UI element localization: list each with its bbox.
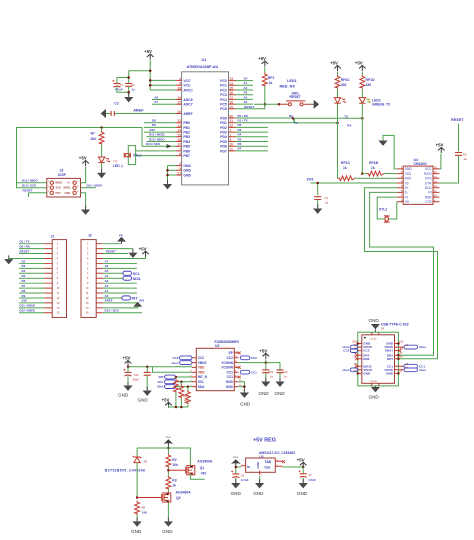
svg-text:XO: XO bbox=[405, 200, 410, 204]
wire Out to +5V bbox=[282, 466, 303, 468]
node A0..A5 labels bbox=[244, 77, 248, 105]
wire RX line (PD0) bbox=[236, 118, 338, 123]
wire reset line bbox=[254, 103, 279, 105]
svg-text:BZT52B5V6_C045346: BZT52B5V6_C045346 bbox=[105, 468, 145, 472]
shield pins top bbox=[372, 332, 379, 335]
svg-text:14: 14 bbox=[177, 129, 181, 133]
U1 right pin names bbox=[220, 79, 227, 153]
U3 pin numbers bbox=[190, 356, 192, 387]
wire TX line (PD1) bbox=[236, 118, 363, 122]
ground reg bbox=[255, 479, 264, 488]
power +5V top bbox=[144, 49, 154, 60]
svg-text:PD7: PD7 bbox=[220, 149, 227, 153]
svg-text:R4: R4 bbox=[142, 506, 146, 510]
svg-text:DSR: DSR bbox=[425, 195, 432, 199]
svg-text:+5V: +5V bbox=[259, 348, 267, 353]
wire vbus to Q1 drain bbox=[168, 448, 190, 466]
resistor R2 10k bbox=[166, 454, 171, 468]
svg-text:vbus: vbus bbox=[233, 456, 239, 459]
wire ICSP +V to +5V bbox=[81, 167, 86, 183]
svg-text:D13 / SCK: D13 / SCK bbox=[22, 184, 37, 188]
svg-text:C13: C13 bbox=[283, 370, 288, 374]
svg-text:PB6: PB6 bbox=[183, 149, 190, 153]
no-connect EP VCONN bbox=[238, 352, 241, 355]
svg-text:17: 17 bbox=[177, 143, 181, 147]
wire XI XO crystal loop bbox=[377, 197, 397, 219]
svg-text:+5V: +5V bbox=[297, 458, 305, 463]
resistor RP2C 330 bbox=[337, 72, 339, 75]
svg-text:R3: R3 bbox=[172, 478, 176, 482]
wire LED1 col to RP1C bbox=[337, 123, 339, 178]
wire D+ route bbox=[365, 188, 438, 359]
capacitor C3 series bbox=[111, 111, 114, 116]
svg-text:+5V: +5V bbox=[162, 397, 170, 402]
svg-text:DCD: DCD bbox=[425, 186, 433, 190]
svg-text:ADC7: ADC7 bbox=[183, 103, 192, 107]
svg-text:RESET: RESET bbox=[244, 105, 254, 109]
svg-text:AVCC: AVCC bbox=[183, 88, 193, 92]
svg-text:D2: D2 bbox=[22, 259, 26, 263]
svg-text:C2: C2 bbox=[131, 83, 135, 87]
svg-text:AMS1117-5.0_C165483: AMS1117-5.0_C165483 bbox=[259, 451, 295, 455]
svg-text:V3: V3 bbox=[405, 181, 409, 185]
svg-text:RX: RX bbox=[347, 124, 351, 128]
svg-text:PC3: PC3 bbox=[220, 93, 227, 97]
svg-text:GND: GND bbox=[138, 397, 149, 402]
wire ICSP GND bbox=[81, 193, 86, 209]
svg-text:TX: TX bbox=[294, 121, 298, 125]
svg-text:.1u: .1u bbox=[269, 374, 273, 378]
svg-text:GND: GND bbox=[183, 169, 191, 173]
LED2 symbol bbox=[359, 98, 365, 104]
svg-text:32: 32 bbox=[230, 124, 234, 128]
svg-text:GND: GND bbox=[226, 380, 234, 384]
ground C12 bbox=[261, 378, 270, 387]
wire VCC branches to U1 bbox=[150, 80, 176, 90]
U4 pin names bbox=[405, 167, 413, 204]
svg-text:VDD: VDD bbox=[198, 366, 205, 370]
wire J2 pin14 3V3 bbox=[103, 307, 138, 308]
svg-text:D11 / MOSI: D11 / MOSI bbox=[149, 133, 165, 137]
svg-text:4.7uF: 4.7uF bbox=[115, 87, 123, 91]
capacitor C13 1u bbox=[279, 363, 281, 370]
wire C6 to DTR bbox=[439, 155, 458, 183]
svg-text:4k7: 4k7 bbox=[184, 399, 189, 403]
resistor R7 1k0 bbox=[101, 128, 103, 131]
wire J1 gnd pin4 bbox=[9, 257, 45, 259]
svg-text:10: 10 bbox=[230, 143, 234, 147]
svg-text:PC5: PC5 bbox=[220, 103, 227, 107]
U1 right pin stubs bbox=[229, 81, 236, 151]
svg-text:RESET: RESET bbox=[20, 249, 30, 253]
wire cap bottom bus bbox=[117, 86, 129, 96]
svg-text:+5V: +5V bbox=[144, 49, 152, 54]
svg-text:CC2: CC2 bbox=[343, 349, 349, 353]
svg-text:U3: U3 bbox=[215, 344, 219, 348]
net flag vbus left1 bbox=[350, 345, 357, 349]
resistor RP1B 1k bbox=[362, 173, 366, 175]
svg-text:D1 / TX: D1 / TX bbox=[238, 119, 248, 123]
svg-text:DTR: DTR bbox=[425, 181, 432, 185]
ICSP pin names bbox=[56, 181, 71, 195]
svg-text:vbus: vbus bbox=[419, 345, 426, 349]
svg-text:GND: GND bbox=[405, 167, 413, 171]
svg-text:INT_N: INT_N bbox=[198, 375, 208, 379]
wire AREF bbox=[106, 113, 176, 115]
svg-text:C6: C6 bbox=[463, 153, 467, 157]
svg-text:A1: A1 bbox=[244, 81, 248, 85]
J1 pin stubs bbox=[44, 244, 52, 313]
svg-text:4.7uF: 4.7uF bbox=[241, 478, 249, 482]
svg-text:26: 26 bbox=[230, 91, 234, 95]
svg-text:A7: A7 bbox=[104, 259, 108, 263]
net flag CC2 left bbox=[350, 349, 357, 353]
svg-text:VBUS: VBUS bbox=[198, 361, 207, 365]
svg-text:TXD: TXD bbox=[405, 172, 412, 176]
svg-text:CTS: CTS bbox=[425, 200, 431, 204]
svg-text:1k: 1k bbox=[343, 166, 347, 170]
wire VCONN to caps bbox=[238, 362, 280, 364]
U4 left stubs bbox=[397, 169, 403, 202]
J1 pin numbers bbox=[57, 243, 60, 315]
svg-text:+5V REG: +5V REG bbox=[253, 438, 276, 444]
net flag CC2 right bbox=[240, 356, 250, 360]
svg-text:PC1: PC1 bbox=[220, 84, 227, 88]
svg-text:C3: C3 bbox=[114, 102, 118, 106]
svg-text:RP1C: RP1C bbox=[341, 161, 351, 165]
U4 right stubs bbox=[433, 169, 439, 202]
svg-text:D10: D10 bbox=[22, 299, 28, 303]
wire J2 pin2 gnd bbox=[103, 248, 133, 250]
svg-text:DN2: DN2 bbox=[363, 357, 369, 361]
pin names inside right bbox=[384, 342, 393, 376]
svg-text:A6: A6 bbox=[104, 264, 108, 268]
svg-text:GND: GND bbox=[118, 392, 129, 397]
svg-text:C7: C7 bbox=[308, 473, 312, 477]
svg-text:Q2: Q2 bbox=[176, 496, 181, 500]
no-connect mark right SBU1 bbox=[398, 349, 401, 352]
svg-text:J2: J2 bbox=[88, 234, 92, 238]
svg-text:21: 21 bbox=[177, 172, 181, 176]
svg-text:D0 / RX: D0 / RX bbox=[238, 114, 249, 118]
svg-text:PC4: PC4 bbox=[220, 98, 227, 102]
svg-text:GND: GND bbox=[363, 372, 371, 376]
svg-text:+5V: +5V bbox=[436, 142, 444, 147]
wire cap top bus bbox=[117, 78, 129, 84]
svg-text:AO3400A: AO3400A bbox=[176, 490, 192, 494]
capacitor C2 .1u bbox=[125, 84, 132, 87]
svg-text:A4: A4 bbox=[104, 274, 108, 278]
net flag CC1 right bbox=[404, 364, 418, 368]
svg-text:RTS: RTS bbox=[425, 177, 431, 181]
power +5V pullups bbox=[162, 397, 172, 408]
ground left-pointing at AREF bbox=[101, 109, 106, 118]
svg-text:R7: R7 bbox=[91, 132, 95, 136]
ground C4 bbox=[313, 205, 322, 214]
svg-text:1k: 1k bbox=[172, 483, 176, 487]
svg-text:.1u: .1u bbox=[325, 200, 329, 204]
svg-text:22uF: 22uF bbox=[133, 377, 139, 381]
resistor RP1 1k bbox=[264, 67, 266, 73]
ground U4 bbox=[378, 141, 387, 146]
svg-text:D13 / SCK: D13 / SCK bbox=[146, 142, 161, 146]
svg-text:18: 18 bbox=[177, 87, 181, 91]
svg-text:2: 2 bbox=[230, 133, 232, 137]
svg-text:GND: GND bbox=[226, 385, 234, 389]
U1 left pin names bbox=[183, 79, 193, 178]
transistor Q1 AO3400A bbox=[168, 469, 185, 471]
svg-text:In: In bbox=[247, 465, 250, 469]
svg-text:SCL: SCL bbox=[158, 380, 164, 384]
svg-text:LED1: LED1 bbox=[287, 79, 297, 83]
ground top arrow bbox=[371, 324, 380, 329]
ground LED_L bbox=[97, 169, 106, 178]
svg-text:9: 9 bbox=[230, 138, 232, 142]
svg-text:10k: 10k bbox=[172, 463, 178, 467]
wire U4 GND hook bbox=[383, 135, 397, 169]
svg-text:vbus: vbus bbox=[166, 436, 172, 439]
svg-text:+V: +V bbox=[67, 181, 71, 185]
ground Q2 bbox=[164, 517, 173, 526]
shield pins bottom bbox=[372, 383, 379, 386]
capacitor C4 1u bbox=[314, 197, 321, 200]
ground J1 bbox=[4, 255, 13, 264]
svg-text:D2: D2 bbox=[238, 123, 242, 127]
wire ICSP RESET bbox=[29, 193, 47, 197]
power +5V output bbox=[297, 458, 307, 468]
svg-text:PB7: PB7 bbox=[183, 154, 190, 158]
svg-text:6: 6 bbox=[179, 82, 181, 86]
svg-text:RED_RX: RED_RX bbox=[280, 85, 296, 89]
svg-text:16: 16 bbox=[177, 138, 181, 142]
svg-text:PD5: PD5 bbox=[220, 140, 227, 144]
svg-text:LED_L: LED_L bbox=[113, 164, 124, 168]
svg-text:VCC: VCC bbox=[183, 84, 191, 88]
node ring junctions bbox=[357, 342, 360, 345]
svg-text:MOSI: MOSI bbox=[64, 186, 71, 190]
U3 right stubs bbox=[234, 353, 238, 387]
svg-text:VCONN: VCONN bbox=[221, 361, 233, 365]
wire ADC7 A7 bbox=[152, 103, 176, 105]
svg-text:Out: Out bbox=[264, 465, 271, 469]
svg-text:C12: C12 bbox=[268, 370, 273, 374]
pin ids left bbox=[353, 340, 358, 373]
ground R4 bbox=[133, 517, 142, 526]
svg-text:RP2: RP2 bbox=[183, 394, 189, 398]
wire RP1 to reset line bbox=[264, 87, 266, 105]
ICSP pin numbers bbox=[48, 181, 79, 193]
svg-text:C10: C10 bbox=[134, 373, 139, 377]
resistor RP2 4k7 pullups bbox=[175, 376, 178, 379]
U1 right pin numbers bbox=[230, 77, 234, 151]
svg-text:+5V: +5V bbox=[355, 61, 363, 66]
wire Q1 source to +5V bbox=[190, 475, 204, 480]
J2 pin stubs bbox=[96, 244, 103, 313]
svg-text:GND: GND bbox=[369, 395, 380, 400]
ground bottom arrow bbox=[374, 386, 376, 387]
svg-text:RESET: RESET bbox=[451, 118, 464, 122]
svg-text:3V3: 3V3 bbox=[139, 299, 145, 303]
right pin stubs bbox=[395, 344, 405, 374]
svg-text:TX: TX bbox=[344, 114, 348, 118]
svg-text:GND: GND bbox=[259, 391, 270, 396]
svg-text:D9: D9 bbox=[22, 294, 26, 298]
svg-text:A4: A4 bbox=[244, 95, 248, 99]
svg-text:CC2: CC2 bbox=[251, 356, 257, 360]
svg-text:RST: RST bbox=[56, 191, 62, 195]
svg-text:PD2: PD2 bbox=[220, 126, 227, 130]
svg-text:D12 / MISO: D12 / MISO bbox=[20, 309, 36, 313]
svg-text:SCL: SCL bbox=[133, 272, 141, 276]
wire GND ring bbox=[358, 332, 399, 386]
svg-text:SCL: SCL bbox=[198, 380, 204, 384]
svg-text:PD0: PD0 bbox=[220, 116, 227, 120]
svg-text:A2: A2 bbox=[244, 86, 248, 90]
ground J2 pin2 bbox=[128, 249, 137, 258]
capacitor C7 4.7uF bbox=[302, 467, 304, 473]
power +5V above RP2C bbox=[330, 61, 341, 72]
left pin stubs bbox=[358, 344, 362, 374]
svg-text:GREEN_TX: GREEN_TX bbox=[372, 103, 391, 107]
svg-text:GND: GND bbox=[65, 191, 71, 195]
svg-text:DP1: DP1 bbox=[387, 357, 393, 361]
svg-text:D12 / MISO: D12 / MISO bbox=[149, 137, 165, 141]
svg-text:.1u: .1u bbox=[131, 88, 136, 92]
capacitor C5 4.7uF bbox=[231, 470, 239, 477]
power +5V right bbox=[259, 348, 269, 359]
connector body bbox=[362, 335, 395, 384]
LED1 symbol bbox=[334, 98, 340, 104]
svg-text:5: 5 bbox=[179, 167, 181, 171]
svg-text:ICSP: ICSP bbox=[58, 173, 67, 177]
svg-text:4.7uF: 4.7uF bbox=[308, 478, 316, 482]
wire INT SCL SDA to chip bbox=[176, 377, 193, 387]
svg-text:RP1B: RP1B bbox=[369, 161, 379, 165]
svg-text:PC6: PC6 bbox=[220, 107, 227, 111]
wire RESET to C6 bbox=[458, 124, 460, 152]
resistor R4 10K bbox=[135, 501, 140, 515]
capacitor C12 .1u bbox=[262, 370, 269, 373]
node reset junction bbox=[264, 103, 267, 106]
resistor RP1C 1k bbox=[338, 176, 355, 181]
svg-text:22: 22 bbox=[177, 101, 181, 105]
J2 labels bbox=[104, 259, 119, 312]
ground U1 bbox=[163, 180, 172, 189]
svg-text:A12: A12 bbox=[399, 340, 404, 343]
svg-text:RXD: RXD bbox=[405, 177, 412, 181]
svg-text:RP2C: RP2C bbox=[341, 78, 351, 82]
svg-text:AREF: AREF bbox=[183, 112, 192, 116]
svg-text:+5V: +5V bbox=[123, 355, 131, 360]
svg-text:CC1: CC1 bbox=[227, 375, 234, 379]
svg-text:+5V: +5V bbox=[200, 471, 207, 475]
wire D13 long route bbox=[17, 128, 143, 188]
svg-text:4: 4 bbox=[179, 77, 181, 81]
J2 wires A7-A0 AREF D13 bbox=[103, 263, 142, 312]
svg-text:INT: INT bbox=[132, 297, 139, 301]
capacitor C6 .1u bbox=[455, 153, 462, 156]
svg-text:3V3: 3V3 bbox=[307, 178, 314, 182]
svg-text:A5: A5 bbox=[104, 269, 108, 273]
power +5V for U4 VCC bbox=[436, 142, 445, 153]
svg-text:vbus: vbus bbox=[342, 368, 349, 372]
capacitor C11 bbox=[146, 367, 148, 372]
svg-text:7: 7 bbox=[179, 147, 181, 151]
svg-text:30: 30 bbox=[230, 115, 234, 119]
svg-text:.1u: .1u bbox=[463, 157, 467, 161]
svg-text:???: ??? bbox=[113, 159, 118, 163]
svg-text:XTL2: XTL2 bbox=[379, 208, 387, 212]
svg-text:GND: GND bbox=[386, 372, 394, 376]
svg-text:ADC6: ADC6 bbox=[183, 98, 192, 102]
svg-text:A0: A0 bbox=[244, 77, 248, 81]
node arrow on D13 wire bbox=[167, 144, 172, 148]
svg-text:CC2: CC2 bbox=[172, 356, 178, 360]
svg-text:GND: GND bbox=[253, 491, 264, 496]
svg-text:8: 8 bbox=[179, 152, 181, 156]
svg-text:GND: GND bbox=[275, 391, 286, 396]
svg-text:24: 24 bbox=[230, 82, 234, 86]
svg-text:USB-TYPE-C-018: USB-TYPE-C-018 bbox=[381, 323, 409, 327]
svg-text:R2: R2 bbox=[172, 458, 176, 462]
svg-text:D3: D3 bbox=[22, 264, 26, 268]
svg-text:AO3400A: AO3400A bbox=[197, 459, 213, 463]
svg-text:25: 25 bbox=[230, 87, 234, 91]
svg-text:11: 11 bbox=[230, 147, 234, 151]
svg-text:GND: GND bbox=[183, 173, 191, 177]
net flag SCL bbox=[123, 271, 132, 275]
wire U3 GND pins bbox=[238, 382, 244, 392]
net flag INT bbox=[122, 296, 131, 300]
ICSP pin circles bbox=[50, 181, 53, 184]
svg-text:27: 27 bbox=[230, 96, 234, 100]
wire +5V down to VCC rail bbox=[129, 60, 151, 90]
svg-text:AREF: AREF bbox=[104, 299, 112, 303]
svg-text:330: 330 bbox=[341, 83, 347, 87]
svg-text:C1: C1 bbox=[120, 83, 124, 87]
wire J2 pin3 RESET bbox=[103, 253, 128, 255]
wire ADC6 A6 bbox=[152, 99, 176, 101]
svg-text:28: 28 bbox=[230, 101, 234, 105]
svg-text:D9: D9 bbox=[152, 123, 156, 127]
svg-text:C4: C4 bbox=[325, 196, 329, 200]
wire to D3 bbox=[137, 448, 168, 456]
wire LED2 col to RP1B bbox=[361, 118, 363, 173]
svg-text:D-: D- bbox=[405, 191, 408, 195]
svg-text:SDA: SDA bbox=[198, 385, 205, 389]
svg-text:RESET: RESET bbox=[106, 249, 116, 253]
power +5V VDD rail bbox=[123, 355, 132, 366]
resistor RP1D 330 bbox=[361, 72, 363, 75]
svg-text:+5V: +5V bbox=[79, 156, 87, 161]
svg-text:D0 / RX: D0 / RX bbox=[20, 245, 30, 249]
LED LED_L bbox=[98, 157, 104, 163]
svg-text:1k: 1k bbox=[269, 81, 273, 85]
svg-text:RESET: RESET bbox=[290, 95, 302, 99]
svg-text:A1: A1 bbox=[104, 289, 108, 293]
svg-text:GND: GND bbox=[240, 402, 251, 407]
svg-text:PB3: PB3 bbox=[183, 135, 190, 139]
svg-text:A0: A0 bbox=[104, 294, 108, 298]
svg-text:GND: GND bbox=[256, 461, 260, 469]
net flag vbus left2 bbox=[350, 368, 357, 372]
regulator pins bbox=[241, 461, 282, 475]
wire A0-A5 nets bbox=[236, 81, 254, 105]
ground ICSP bbox=[81, 206, 90, 215]
svg-text:PD4: PD4 bbox=[220, 135, 227, 139]
net flag SDA bbox=[123, 276, 132, 280]
wire ICSP MOSI bbox=[81, 187, 97, 189]
